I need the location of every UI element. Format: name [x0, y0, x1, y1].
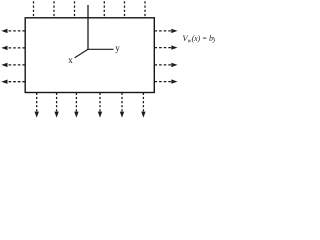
right arrow 1 — [155, 29, 178, 33]
top dashed line 3 — [74, 1, 76, 18]
top dashed line 5 — [124, 1, 126, 18]
top dashed line 2 — [53, 1, 55, 18]
axis x diagonal line — [75, 49, 88, 58]
bottom arrow 4 — [98, 93, 102, 118]
top dashed line 6 — [144, 1, 146, 18]
top dashed line 1 — [33, 1, 35, 18]
right arrow 2 — [155, 45, 178, 49]
left arrow 2 — [1, 46, 25, 50]
top dashed line 4 — [103, 1, 105, 18]
bottom arrow 3 — [74, 93, 78, 118]
right arrow 3 — [155, 63, 178, 67]
axis z vertical line — [87, 5, 89, 49]
bottom arrow 5 — [120, 93, 124, 118]
left arrow 1 — [1, 29, 25, 33]
axis y horizontal line — [87, 48, 113, 50]
bottom arrow 6 — [141, 93, 145, 118]
svg-text:(x) = by: (x) = by — [192, 33, 215, 43]
left arrow 4 — [1, 80, 25, 84]
left arrow 3 — [1, 63, 25, 67]
equation label Vw(x)=by — [182, 33, 216, 45]
bottom arrow 1 — [35, 93, 39, 118]
svg-text:y: y — [115, 43, 120, 53]
svg-text:x: x — [68, 55, 73, 65]
right arrow 4 — [155, 79, 178, 83]
bottom arrow 2 — [54, 93, 58, 118]
rectangular plate boundary — [25, 18, 154, 93]
